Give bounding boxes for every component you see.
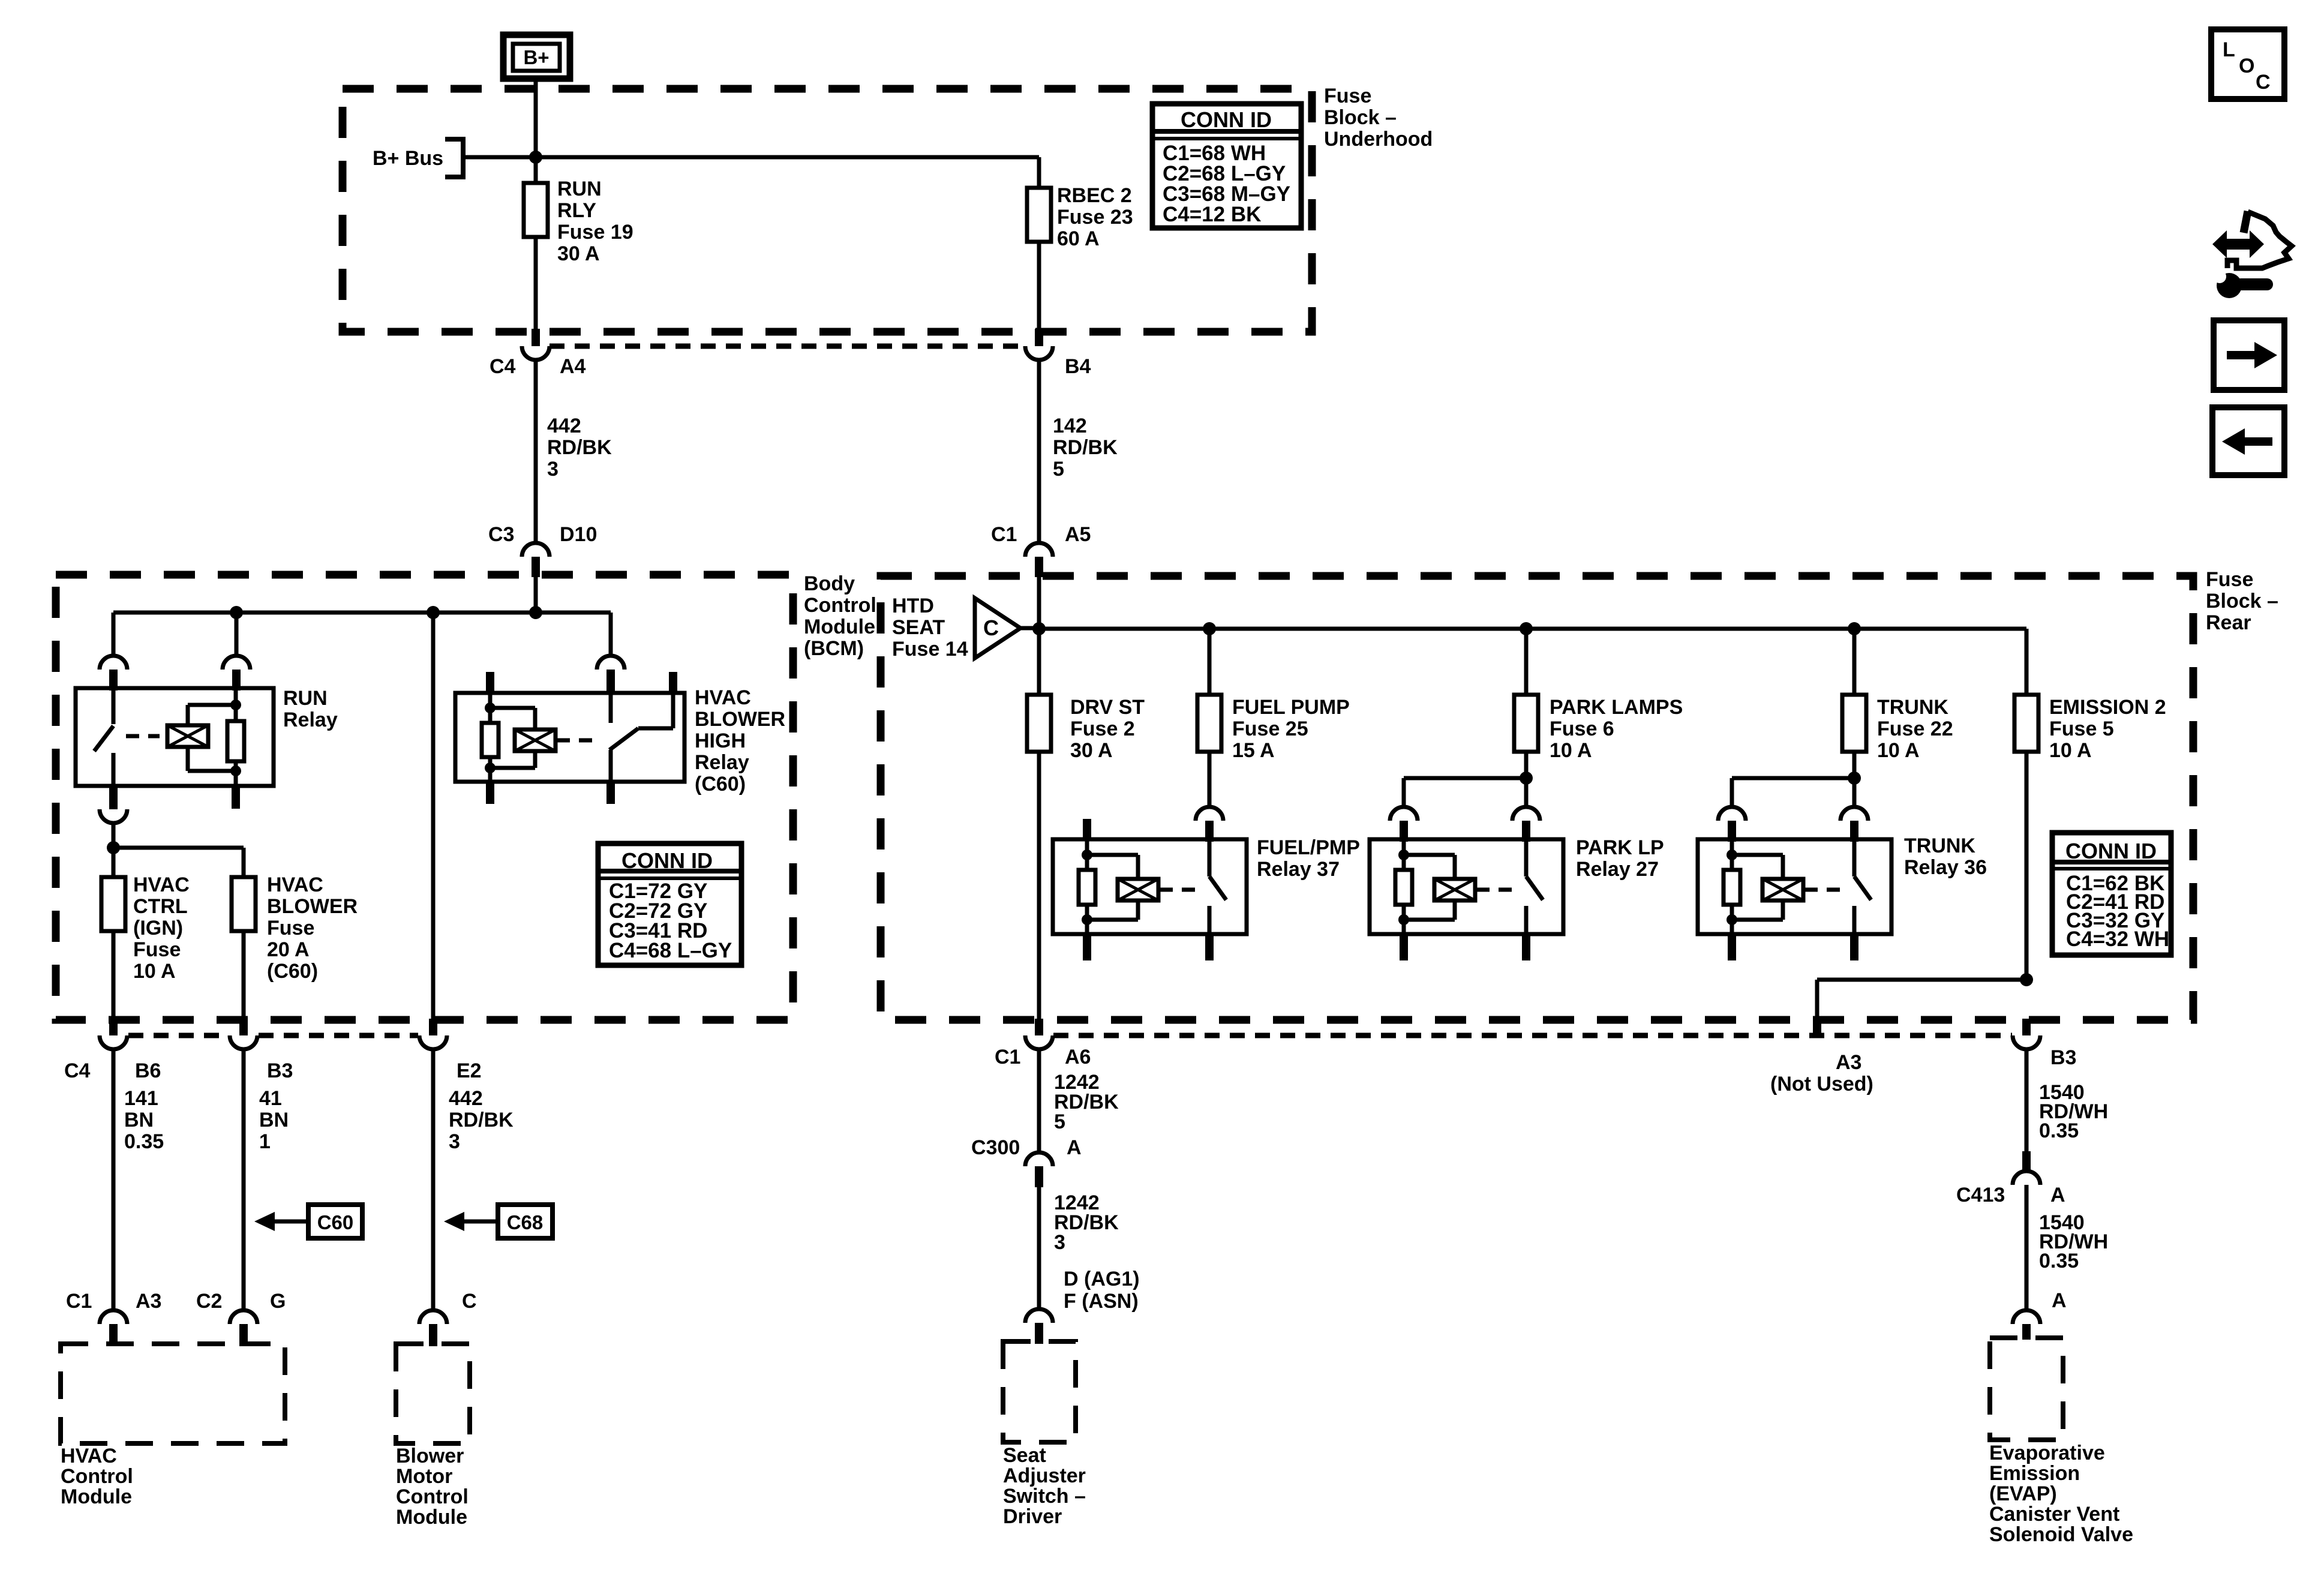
svg-text:Relay 37: Relay 37 xyxy=(1257,858,1340,881)
svg-text:DRV ST: DRV ST xyxy=(1070,696,1145,719)
svg-text:C4=32 WH: C4=32 WH xyxy=(2066,927,2169,951)
svg-text:B+: B+ xyxy=(523,46,549,68)
svg-text:41: 41 xyxy=(259,1087,282,1110)
svg-text:C: C xyxy=(462,1290,477,1313)
svg-text:10 A: 10 A xyxy=(2049,739,2092,762)
svg-text:L: L xyxy=(2223,38,2235,61)
svg-text:RBEC 2: RBEC 2 xyxy=(1057,184,1132,207)
svg-text:Canister Vent: Canister Vent xyxy=(1989,1503,2119,1526)
svg-text:Switch –: Switch – xyxy=(1003,1485,1086,1508)
svg-text:Fuse 22: Fuse 22 xyxy=(1877,718,1953,740)
svg-text:C4: C4 xyxy=(490,355,516,378)
svg-text:SEAT: SEAT xyxy=(892,616,945,639)
svg-text:20 A: 20 A xyxy=(267,938,310,961)
svg-text:Fuse 2: Fuse 2 xyxy=(1070,718,1135,740)
svg-text:A5: A5 xyxy=(1065,523,1091,546)
svg-text:(C60): (C60) xyxy=(695,773,746,795)
svg-text:Motor: Motor xyxy=(396,1465,452,1488)
svg-text:HVAC: HVAC xyxy=(133,873,190,896)
svg-text:Emission: Emission xyxy=(1989,1462,2080,1485)
svg-text:HVAC: HVAC xyxy=(267,873,323,896)
svg-text:Fuse 25: Fuse 25 xyxy=(1232,718,1308,740)
svg-text:FUEL PUMP: FUEL PUMP xyxy=(1232,696,1350,719)
svg-text:Fuse 5: Fuse 5 xyxy=(2049,718,2114,740)
svg-text:D (AG1): D (AG1) xyxy=(1064,1268,1140,1290)
svg-text:(BCM): (BCM) xyxy=(804,637,864,660)
svg-text:Fuse: Fuse xyxy=(1324,85,1371,107)
svg-text:TRUNK: TRUNK xyxy=(1904,834,1975,857)
svg-text:RUN: RUN xyxy=(283,687,328,710)
svg-text:BN: BN xyxy=(259,1109,289,1131)
svg-text:Solenoid Valve: Solenoid Valve xyxy=(1989,1523,2133,1546)
svg-text:10 A: 10 A xyxy=(1550,739,1592,762)
svg-text:B+ Bus: B+ Bus xyxy=(373,147,443,170)
svg-text:Relay 36: Relay 36 xyxy=(1904,856,1987,879)
svg-text:Control: Control xyxy=(396,1485,469,1508)
svg-text:RD/BK: RD/BK xyxy=(1053,436,1118,459)
svg-text:142: 142 xyxy=(1053,415,1087,437)
svg-text:D10: D10 xyxy=(560,523,597,546)
svg-text:B6: B6 xyxy=(135,1059,161,1082)
svg-text:C: C xyxy=(983,616,999,640)
svg-text:30 A: 30 A xyxy=(557,242,600,265)
svg-text:(Not Used): (Not Used) xyxy=(1770,1073,1873,1095)
svg-text:RD/BK: RD/BK xyxy=(449,1109,514,1131)
svg-text:C4=68 L–GY: C4=68 L–GY xyxy=(609,939,732,962)
svg-text:Relay: Relay xyxy=(283,709,338,731)
svg-text:CONN ID: CONN ID xyxy=(1181,107,1272,132)
svg-text:C60: C60 xyxy=(317,1211,354,1233)
svg-text:B3: B3 xyxy=(267,1059,293,1082)
svg-text:Fuse: Fuse xyxy=(2206,568,2253,591)
svg-text:Underhood: Underhood xyxy=(1324,128,1433,151)
svg-text:C4=12 BK: C4=12 BK xyxy=(1163,203,1261,226)
svg-text:Seat: Seat xyxy=(1003,1444,1046,1467)
svg-text:Control: Control xyxy=(61,1465,133,1488)
svg-text:E2: E2 xyxy=(457,1059,482,1082)
svg-text:3: 3 xyxy=(449,1130,460,1153)
svg-text:BN: BN xyxy=(124,1109,154,1131)
svg-text:(EVAP): (EVAP) xyxy=(1989,1482,2057,1505)
svg-text:Fuse 6: Fuse 6 xyxy=(1550,718,1614,740)
svg-text:HTD: HTD xyxy=(892,595,934,617)
svg-text:CONN ID: CONN ID xyxy=(2065,839,2157,863)
svg-text:RD/BK: RD/BK xyxy=(547,436,612,459)
svg-text:CONN ID: CONN ID xyxy=(621,848,713,873)
svg-text:B3: B3 xyxy=(2050,1046,2076,1069)
svg-text:B4: B4 xyxy=(1065,355,1091,378)
svg-text:60 A: 60 A xyxy=(1057,227,1100,250)
svg-text:3: 3 xyxy=(1054,1231,1065,1254)
svg-text:A4: A4 xyxy=(560,355,586,378)
svg-text:10 A: 10 A xyxy=(133,960,176,983)
svg-text:15 A: 15 A xyxy=(1232,739,1275,762)
svg-text:141: 141 xyxy=(124,1087,158,1110)
svg-text:0.35: 0.35 xyxy=(2039,1119,2079,1142)
svg-text:Module: Module xyxy=(396,1506,467,1529)
svg-text:30 A: 30 A xyxy=(1070,739,1113,762)
svg-text:5: 5 xyxy=(1054,1110,1065,1133)
svg-text:A: A xyxy=(2050,1184,2065,1206)
svg-text:Module: Module xyxy=(61,1485,132,1508)
svg-text:PARK LP: PARK LP xyxy=(1576,836,1664,859)
svg-text:C68: C68 xyxy=(507,1211,544,1233)
svg-text:0.35: 0.35 xyxy=(124,1130,164,1153)
svg-text:Body: Body xyxy=(804,572,855,595)
svg-text:Block –: Block – xyxy=(2206,590,2278,613)
svg-text:Driver: Driver xyxy=(1003,1505,1062,1528)
svg-text:Adjuster: Adjuster xyxy=(1003,1464,1086,1487)
svg-text:Evaporative: Evaporative xyxy=(1989,1442,2105,1464)
svg-text:(IGN): (IGN) xyxy=(133,917,183,939)
svg-text:Rear: Rear xyxy=(2206,611,2251,634)
svg-text:O: O xyxy=(2239,55,2254,77)
svg-text:C: C xyxy=(2256,71,2271,94)
svg-text:C1: C1 xyxy=(66,1290,92,1313)
svg-text:HVAC: HVAC xyxy=(695,686,751,709)
svg-text:EMISSION 2: EMISSION 2 xyxy=(2049,696,2166,719)
svg-text:1: 1 xyxy=(259,1130,271,1153)
svg-text:C1: C1 xyxy=(995,1046,1020,1068)
svg-text:HIGH: HIGH xyxy=(695,730,746,752)
svg-text:A3: A3 xyxy=(136,1290,161,1313)
svg-text:442: 442 xyxy=(449,1087,483,1110)
svg-text:F (ASN): F (ASN) xyxy=(1064,1290,1139,1313)
svg-text:Relay: Relay xyxy=(695,751,749,774)
svg-text:A3: A3 xyxy=(1836,1051,1861,1074)
svg-text:Blower: Blower xyxy=(396,1445,464,1467)
svg-text:HVAC: HVAC xyxy=(61,1445,117,1467)
svg-text:442: 442 xyxy=(547,415,581,437)
svg-text:C1: C1 xyxy=(991,523,1017,546)
svg-text:Relay 27: Relay 27 xyxy=(1576,858,1659,881)
svg-text:Block –: Block – xyxy=(1324,106,1397,129)
svg-text:10 A: 10 A xyxy=(1877,739,1920,762)
svg-text:Fuse 14: Fuse 14 xyxy=(892,638,968,661)
svg-text:Fuse 19: Fuse 19 xyxy=(557,221,633,244)
svg-text:TRUNK: TRUNK xyxy=(1877,696,1948,719)
svg-text:A: A xyxy=(2052,1289,2067,1312)
svg-text:5: 5 xyxy=(1053,458,1064,481)
svg-text:RLY: RLY xyxy=(557,199,596,222)
svg-text:Fuse: Fuse xyxy=(133,938,181,961)
svg-text:Control: Control xyxy=(804,594,876,617)
svg-text:CTRL: CTRL xyxy=(133,895,188,918)
svg-text:0.35: 0.35 xyxy=(2039,1250,2079,1272)
svg-text:C4: C4 xyxy=(64,1059,91,1082)
svg-text:PARK LAMPS: PARK LAMPS xyxy=(1550,696,1683,719)
svg-text:A: A xyxy=(1067,1136,1082,1159)
svg-text:3: 3 xyxy=(547,458,559,481)
svg-text:G: G xyxy=(270,1290,286,1313)
svg-text:BLOWER: BLOWER xyxy=(695,708,785,731)
svg-text:C300: C300 xyxy=(971,1136,1020,1159)
svg-text:BLOWER: BLOWER xyxy=(267,895,358,918)
svg-text:C2: C2 xyxy=(196,1290,222,1313)
svg-text:C3: C3 xyxy=(488,523,514,546)
svg-text:Fuse: Fuse xyxy=(267,917,314,939)
svg-text:RUN: RUN xyxy=(557,178,602,200)
svg-text:C413: C413 xyxy=(1956,1184,2005,1206)
svg-text:(C60): (C60) xyxy=(267,960,318,983)
svg-text:Module: Module xyxy=(804,616,875,638)
svg-text:A6: A6 xyxy=(1065,1046,1091,1068)
svg-text:Fuse 23: Fuse 23 xyxy=(1057,206,1133,229)
svg-text:FUEL/PMP: FUEL/PMP xyxy=(1257,836,1360,859)
